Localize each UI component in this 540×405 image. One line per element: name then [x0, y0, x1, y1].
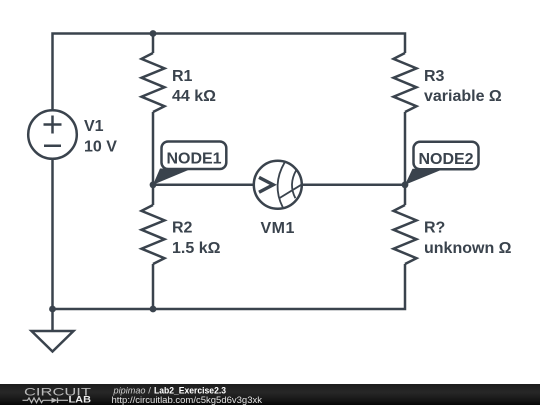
node NODE2 flag [405, 142, 479, 185]
wire middle left: NODE1 to VM1 [153, 184, 254, 187]
svg-text:R2: R2 [172, 220, 193, 237]
svg-text:LAB: LAB [69, 395, 92, 405]
svg-text:unknown Ω: unknown Ω [424, 240, 512, 257]
svg-text:44 kΩ: 44 kΩ [172, 88, 216, 105]
junction dot R2 bottom [150, 306, 157, 313]
R? value label [424, 220, 512, 257]
svg-text:NODE2: NODE2 [418, 151, 473, 168]
voltmeter VM1 [254, 161, 302, 209]
wire top (52.5,33.5)-(405,33.5) with left and right drops [53, 34, 406, 110]
svg-text:NODE1: NODE1 [166, 151, 221, 168]
V1 value label [84, 118, 117, 155]
resistor R? [394, 185, 417, 264]
resistor R2 [142, 185, 165, 309]
voltage source V1 [28, 110, 77, 159]
svg-text:R3: R3 [424, 68, 445, 85]
ground [32, 309, 74, 352]
resistor R1 [142, 34, 165, 185]
svg-text:variable Ω: variable Ω [424, 88, 502, 105]
junction dot NODE2 [402, 181, 409, 188]
wire middle right: VM1 to NODE2 [301, 184, 405, 187]
footer CircuitLab logo [23, 386, 92, 404]
wire bottom (52.5,309)-(405,309) with right rise [53, 264, 406, 309]
junction dot ground [49, 306, 56, 313]
R3 value label [424, 68, 502, 105]
svg-text:http://circuitlab.com/c5kg5d6v: http://circuitlab.com/c5kg5d6v3g3xk [112, 395, 263, 405]
svg-text:V1: V1 [84, 118, 104, 135]
R2 value label [172, 220, 221, 257]
footer title text [112, 385, 263, 405]
R1 value label [172, 68, 216, 105]
junction dot top (R1/top wire) [150, 30, 157, 37]
VM1 label [261, 220, 295, 237]
svg-text:1.5 kΩ: 1.5 kΩ [172, 240, 221, 257]
node NODE1 flag [153, 142, 226, 185]
junction dot NODE1 [150, 181, 157, 188]
footer bar [0, 384, 540, 405]
wire left column below V1 [51, 160, 54, 310]
svg-text:10 V: 10 V [84, 138, 117, 155]
svg-text:R1: R1 [172, 68, 193, 85]
svg-text:R?: R? [424, 220, 445, 237]
svg-text:VM1: VM1 [261, 220, 295, 237]
resistor R3 [394, 53, 417, 185]
